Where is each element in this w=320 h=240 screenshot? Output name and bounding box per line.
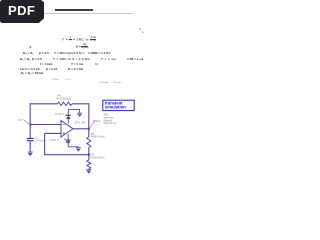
svg-text:OP1_741: OP1_741	[75, 121, 87, 125]
node VC junction dot	[29, 124, 31, 126]
svg-text:simulation: simulation	[105, 105, 126, 110]
node Out junction dot	[88, 128, 90, 130]
equation row 9	[99, 81, 109, 84]
equation row 7	[21, 72, 43, 75]
wire: rail between R1 and junction	[88, 147, 90, 160]
battery V- red plus	[64, 138, 65, 139]
svg-text:C=0.1uF: C=0.1uF	[35, 138, 45, 142]
equation row 4	[20, 58, 42, 61]
tiny page mark top right	[139, 28, 141, 31]
wire: right rail top	[88, 103, 90, 137]
svg-text:VC: VC	[18, 118, 22, 122]
svg-text:Out: Out	[96, 119, 101, 123]
wire: inverting input	[30, 124, 61, 126]
battery V+ red plus	[65, 114, 66, 115]
op-amp minus mark	[63, 124, 65, 126]
equation row 5	[40, 63, 52, 66]
wire: below capacitor	[29, 141, 31, 151]
divider junction dot	[88, 154, 90, 156]
op-amp U1 triangle	[61, 121, 73, 137]
equation row 2	[30, 46, 32, 49]
node label line Out (pink)	[89, 122, 94, 129]
title line dark	[55, 9, 93, 10]
equation row 1	[62, 37, 96, 43]
wire: below R2	[88, 168, 90, 171]
resistor R4 (feedback)	[58, 102, 72, 105]
svg-text:Stop=5 ms: Stop=5 ms	[103, 121, 117, 125]
wire: top feedback left segment	[30, 103, 57, 105]
supply V+ stub	[67, 109, 69, 123]
equation row 8	[52, 78, 59, 81]
svg-text:U=15 V: U=15 V	[50, 138, 59, 142]
circuit schematic SVG	[0, 0, 149, 198]
svg-text:R=50 kOhm: R=50 kOhm	[91, 135, 105, 139]
PDF badge	[0, 0, 44, 23]
simulation box	[103, 100, 134, 110]
op-amp plus mark	[63, 132, 65, 134]
wire: left rail vertical	[29, 103, 31, 138]
resistor R1	[87, 137, 91, 147]
ground (V+ battery)	[77, 113, 82, 117]
node label line VC (pink)	[23, 119, 30, 125]
resistor R2	[87, 160, 91, 169]
svg-text:U=15 V: U=15 V	[55, 112, 64, 116]
node label flag Out	[93, 120, 95, 122]
ground (below C1)	[28, 152, 33, 157]
ground (below R2)	[86, 169, 91, 174]
wire: bottom feedback	[45, 133, 89, 154]
battery V- plates	[66, 140, 71, 141]
svg-text:R=50 kOhm: R=50 kOhm	[91, 155, 105, 159]
wire: top feedback right segment	[72, 103, 89, 105]
subtitle line light	[44, 13, 133, 14]
supply V- stub	[67, 134, 69, 140]
equation row 6	[20, 68, 40, 71]
capacitor C1 plates	[27, 138, 34, 139]
wire: op-amp output	[73, 128, 89, 130]
ground (V- battery)	[76, 147, 81, 151]
wire: non-inverting input	[45, 132, 61, 134]
capacitor polarity red dot	[30, 143, 31, 144]
wire: V- battery to ground	[68, 143, 78, 148]
battery V+ plates	[66, 115, 71, 116]
equation row 3	[23, 52, 34, 55]
svg-text:R=100kOhm: R=100kOhm	[57, 96, 72, 100]
wire: V+ to ground	[68, 109, 79, 113]
